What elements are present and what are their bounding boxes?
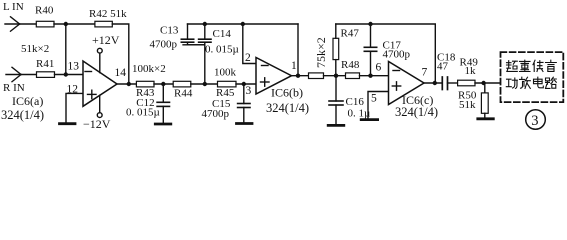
svg-text:−12V: −12V [83,117,111,131]
subwoofer amp dashed box [501,52,564,102]
capacitor C16 [329,76,343,124]
svg-text:3: 3 [531,113,538,129]
resistor R43 [136,81,154,87]
capacitor C15 [238,84,250,122]
di [533,60,543,71]
resistor R47 vertical [333,24,339,76]
wire feedback top c [336,24,436,83]
gong [506,78,517,88]
svg-text:C13: C13 [160,25,179,37]
svg-text:R44: R44 [174,88,193,100]
node junction C14 bottom [203,82,207,86]
fang [520,77,531,88]
svg-text:IC6(a): IC6(a) [12,94,43,108]
lu [546,77,557,88]
power +12V terminal [97,48,102,72]
svg-text:5: 5 [371,93,377,105]
ground pin5 [361,118,377,121]
label plus a [88,90,97,98]
svg-text:0. 015µ: 0. 015µ [205,43,239,55]
svg-text:R IN: R IN [3,82,25,94]
wire output c [424,82,442,84]
label minus b [262,65,269,67]
svg-text:C14: C14 [213,28,232,40]
svg-text:0. 1µ: 0. 1µ [348,108,371,120]
node junction C17 top [368,22,372,26]
svg-text:4700p: 4700p [202,108,230,120]
node junction pin13 [64,72,68,76]
ground pin12 [60,122,76,125]
wire R43 to R44 [154,83,173,85]
svg-text:12: 12 [67,84,79,96]
svg-text:C16: C16 [346,96,365,108]
wire R48 to pin6 [360,75,389,77]
ground C15 [237,122,253,125]
svg-text:100k×2: 100k×2 [132,63,166,75]
wire feedback riser b [297,24,299,76]
node R IN input arrow [6,67,21,81]
node junction C15 [242,82,246,86]
svg-text:R40: R40 [35,5,54,17]
node junction C14 top [203,22,207,26]
wire feedback top b [188,23,299,25]
svg-text:324(1/4): 324(1/4) [1,108,44,122]
label minus a [85,71,92,73]
wire R44 to R45 [191,83,218,85]
svg-text:14: 14 [115,67,127,79]
chao [507,61,518,72]
svg-text:7: 7 [422,67,428,79]
power -12V terminal [97,95,102,117]
resistor R50 vertical [481,83,488,117]
svg-text:1k: 1k [465,65,477,77]
capacitor C17 [364,24,376,76]
svg-text:47: 47 [437,61,449,73]
ground C16 [328,124,344,127]
capacitor C14 [199,24,211,84]
wire pin2 riser [243,24,256,64]
svg-text:R48: R48 [341,59,360,71]
svg-text:IC6(b): IC6(b) [271,86,303,100]
label chinese line2 (fake glyph strokes) [506,77,556,88]
svg-text:R41: R41 [36,58,54,70]
op-amp U-IC6c [389,62,425,105]
svg-text:3: 3 [246,85,252,97]
node junction output a [127,82,131,86]
resistor R42 [95,21,112,27]
svg-text:75k×2: 75k×2 [314,37,328,68]
node junction R47 C16 [334,74,338,78]
svg-text:R47: R47 [341,28,360,40]
resistor R44 [173,81,191,87]
ground R50 [478,117,494,120]
node junction feedback b [296,74,300,78]
resistor R41 [37,72,55,78]
node junction pin2 top [241,22,245,26]
wire R45 to pin3 [236,83,256,85]
capacitor C18 [442,77,457,90]
svg-text:51k×2: 51k×2 [21,43,49,55]
ground C12 [155,123,171,126]
wire output a [117,83,136,85]
label minus c [393,70,400,72]
svg-text:324(1/4): 324(1/4) [266,101,309,115]
svg-text:1: 1 [291,60,297,72]
svg-text:2: 2 [245,52,251,64]
svg-text:4700p: 4700p [383,49,411,61]
node junction feedback c [433,81,437,85]
resistor R49 [458,80,475,86]
yin [546,60,557,71]
label chinese line1 (fake glyph strokes) [507,60,557,71]
zhong [520,60,531,71]
svg-text:13: 13 [68,61,80,73]
node junction C12 [161,82,165,86]
label plus c [392,82,400,90]
wire riser L to pin13 junction [65,24,67,75]
wire R41 to pin13 [55,74,84,76]
wire pin12 [66,93,83,122]
wire R IN to R41 [21,74,37,76]
capacitor C13 [181,24,205,45]
node L IN input arrow [5,17,20,31]
wire R40 to R42 [54,23,95,25]
svg-text:R42 51k: R42 51k [89,8,127,20]
node junction R50 [481,81,485,85]
wire R49 to box [475,82,501,84]
wire output b [292,75,309,77]
capacitor C12 [157,84,169,123]
op-amp U-IC6b [256,58,292,95]
node circled 3 [526,110,546,130]
wire pin5 [368,92,389,119]
svg-text:100k: 100k [214,67,237,79]
svg-text:324(1/4): 324(1/4) [395,105,438,119]
wire L IN to R40 [20,23,37,25]
resistor R40 [36,21,54,27]
svg-text:51k: 51k [459,99,476,111]
wire R42 to feedback riser [112,24,129,84]
wire R46 to junction [324,75,346,77]
resistor R46 75k horizontal [309,73,324,79]
resistor R48 [346,73,360,79]
node junction top-left [64,22,68,26]
label plus b [261,78,270,86]
op-amp U-IC6a [83,61,117,106]
svg-text:L IN: L IN [3,1,24,13]
node junction C17 bottom [368,74,372,78]
svg-text:+12V: +12V [92,33,120,47]
svg-text:6: 6 [376,62,382,74]
resistor R45 [218,81,237,87]
svg-text:4700p: 4700p [150,39,178,51]
dian [534,77,544,88]
svg-text:0. 015µ: 0. 015µ [126,107,160,119]
